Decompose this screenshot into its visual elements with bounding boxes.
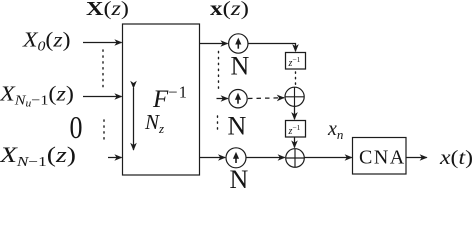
adder A2 [285,87,304,106]
svg-text:Nz: Nz [144,110,164,136]
svg-text:N: N [230,165,249,189]
svg-text:z−1: z−1 [288,123,301,137]
wire delay2 to adder3 [294,137,296,148]
svg-text:CNA: CNA [359,147,406,169]
delay z-1 box2 [286,121,306,138]
adder A3 [286,149,305,168]
wire upsampler1 to delay [248,44,296,52]
svg-text:X0(z): X0(z) [22,28,71,55]
wire adder3 to CNA [304,157,352,159]
arrow into upsampler row2 [217,98,228,100]
wire input arrow row2 [83,96,122,98]
right ellipsis dots upper [218,52,220,92]
svg-text:F−1: F−1 [152,83,188,114]
svg-text:xn: xn [327,118,343,142]
IFFT block U1 [123,24,200,175]
wire CNA output [406,157,427,159]
wire box to upsampler row3 [200,157,226,159]
upsampler row3 [226,148,246,168]
size arrow Nz [133,88,135,150]
svg-text:N: N [228,112,247,141]
left ellipsis dots upper [102,50,104,91]
delay z-1 box1 [286,53,306,70]
wire adder2 to delay2 [294,106,296,119]
wire input arrow row3 [108,157,122,159]
wire upsampler3 to adder3 [246,157,285,159]
svg-text:XNu−1(z): XNu−1(z) [0,82,74,110]
svg-text:XN−1(z): XN−1(z) [0,142,76,170]
dashed wire upsampler2 to adder2 [248,97,284,100]
wire input arrow row1 [83,42,122,44]
svg-text:z−1: z−1 [288,55,301,69]
svg-text:0: 0 [70,109,83,145]
svg-text:X(z): X(z) [86,0,129,20]
upsampler row1 [229,34,248,53]
DAC block CNA [353,138,407,175]
svg-text:x(z): x(z) [210,0,249,20]
svg-text:N: N [231,52,250,81]
dotted wire delay1 to adder2 [295,72,297,86]
left ellipsis dots lower [103,120,105,139]
svg-text:x(t): x(t) [439,147,473,169]
upsampler row2 [229,90,247,108]
right ellipsis dots lower [217,116,219,131]
wire box to upsampler row1 [200,43,228,45]
